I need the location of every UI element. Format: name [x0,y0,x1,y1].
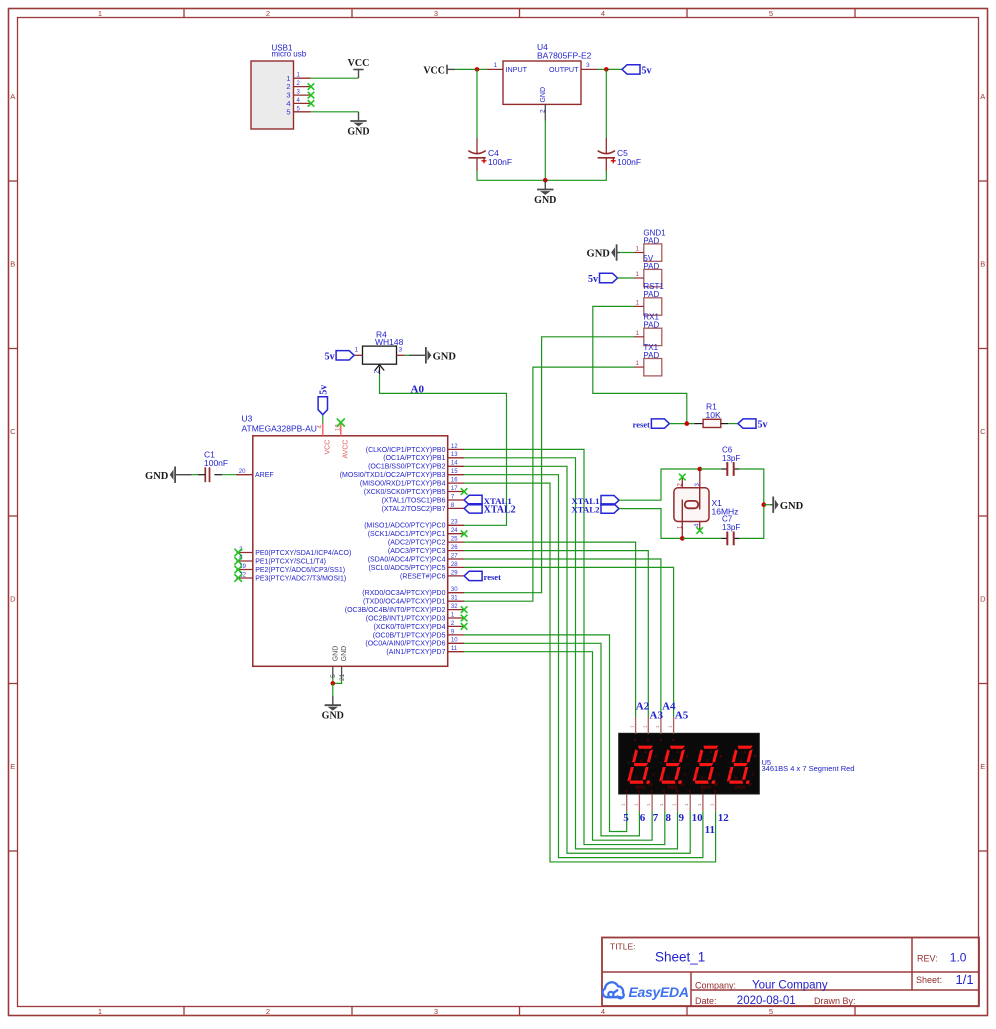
svg-text:(XTAL1/TOSC1)PB6: (XTAL1/TOSC1)PB6 [382,497,446,504]
svg-text:(CLKO/ICP1/PTCXY)PB0: (CLKO/ICP1/PTCXY)PB0 [366,447,446,454]
svg-text:C: C [10,427,16,436]
wire PC4 to display top pin A4 [464,559,661,717]
mcu U3 right pin 13 (OC1A/PTCXY)PB1 [448,457,464,459]
potentiometer R4 pin 3 [397,354,405,356]
svg-text:GND: GND [587,249,611,260]
svg-text:G: G [640,759,643,763]
svg-text:A: A [980,92,985,101]
svg-text:Sheet:: Sheet: [916,975,942,985]
wire GND to pad GND1 [620,252,635,254]
svg-text:2: 2 [266,9,270,18]
svg-text:GND: GND [780,501,804,512]
wire U4 output to 5v flag [598,68,623,70]
svg-text:(SDA0/ADC4/PTCY)PC4: (SDA0/ADC4/PTCY)PC4 [368,556,446,563]
svg-text:14: 14 [451,461,458,467]
wire C1 to GND [192,474,199,476]
net flag 5v above VCC pin [322,415,324,424]
wire pad TX1 to MCU PD1 [464,367,634,601]
junction mcu gnd [331,681,336,686]
svg-text:100nF: 100nF [617,157,641,167]
svg-text:1: 1 [355,347,359,354]
mcu U3 top pin 18 AVCC [340,424,342,436]
svg-text:REV:: REV: [917,953,938,963]
svg-text:5v: 5v [758,420,768,431]
mcu U3 right pin 31 (TXD0/OC4A/PTCXY)PD1 [448,600,464,602]
junction at gnd rail [543,178,548,183]
title block divider under title row [602,971,979,973]
wire XTAL1 to crystal loop [619,469,700,500]
mcu U3 right pin 28 (SCL0/ADC5/PTCY)PC5 [448,566,464,568]
svg-text:9: 9 [679,812,685,824]
pad TX1 box [644,359,662,376]
mcu U3 right pin 16 (MISO0/RXD1/PTCXY)PB4 [448,482,464,484]
svg-text:5: 5 [330,674,337,678]
svg-text:4: 4 [601,9,605,18]
mcu U3 right pin 25 (ADC2/PTCY)PC2 [448,541,464,543]
display U5 body [619,733,760,794]
frame row ticks right [979,180,988,182]
connector USB1 pin 2 [294,86,311,88]
svg-text:A2: A2 [636,701,650,713]
svg-text:DP: DP [714,783,719,787]
potentiometer R4 body [363,346,397,364]
regulator U4 pin 1 INPUT [487,68,503,70]
svg-text:11: 11 [705,824,715,836]
svg-text:D: D [10,595,16,604]
wire R4 pin3 to GND [405,354,409,356]
svg-text:11: 11 [451,646,458,652]
svg-text:A5: A5 [675,710,689,722]
net flag reset at mcu PC6 [464,571,482,580]
net flag XTAL2 at crystal [601,504,619,513]
net flag 5v at pad 5V [600,273,618,282]
svg-text:5: 5 [769,1007,773,1016]
svg-text:WH148: WH148 [375,337,404,347]
svg-text:5v: 5v [588,274,598,285]
svg-text:100nF: 100nF [488,157,512,167]
svg-text:DP: DP [648,783,653,787]
wire pad RST1 to reset junction [593,306,687,423]
svg-text:B: B [10,260,15,269]
pad RST1 box [644,298,662,315]
mcu U3 right pin 24 (SCK1/ADC1/PTCY)PC1 [448,533,464,535]
svg-text:1.0: 1.0 [950,950,967,964]
wire VCC to U4 input [455,68,487,70]
svg-text:10: 10 [451,638,458,644]
svg-text:XTAL2: XTAL2 [571,505,600,515]
connector USB1 pin 1 [294,77,311,79]
svg-text:Company:: Company: [695,981,736,991]
wire PD7 to display pin7 [464,652,652,841]
svg-text:(TXD0/OC4A/PTCXY)PD1: (TXD0/OC4A/PTCXY)PD1 [363,599,446,606]
svg-text:25: 25 [451,537,458,543]
mcu U3 right pin 23 (MISO1/ADC0/PTCY)PC0 [448,524,464,526]
svg-text:ATMEGA328PB-AU: ATMEGA328PB-AU [242,424,317,434]
frame row ticks left [9,180,18,182]
frame column ticks top [183,9,185,18]
regulator U4 pin 3 OUTPUT [581,68,598,70]
svg-text:C: C [980,427,986,436]
svg-text:VCC: VCC [423,65,445,76]
title block divider logo cell [690,972,692,1006]
junction at C5 tap [604,67,609,72]
svg-text:12: 12 [718,812,730,824]
junction reset net [685,421,690,426]
capacitor C7 [722,537,728,539]
pad 5V box [644,269,662,286]
svg-text:3: 3 [434,1007,438,1016]
mcu U3 left pin 3 PE0(PTCXY/SDA1/ICP4/ACO) [236,552,252,554]
wire bottom rail to C7 [682,537,722,539]
svg-text:4: 4 [601,1007,605,1016]
mcu U3 right pin 1 (OC2B/INT1/PTCXY)PD3 [448,617,464,619]
no-connect X on USB1 pin 3 [308,92,315,99]
mcu U3 right pin 11 (AIN1/PTCXY)PD7 [448,651,464,653]
svg-text:21: 21 [339,673,346,681]
net flag XTAL1 at mcu PB6 [464,495,482,504]
svg-text:15: 15 [451,469,458,475]
svg-text:(MISO0/RXD1/PTCXY)PB4: (MISO0/RXD1/PTCXY)PB4 [360,481,446,488]
svg-text:PE0(PTCXY/SDA1/ICP4/ACO): PE0(PTCXY/SDA1/ICP4/ACO) [255,550,351,557]
svg-text:(OC1A/PTCXY)PB1: (OC1A/PTCXY)PB1 [383,455,445,462]
svg-text:Drawn By:: Drawn By: [814,996,856,1006]
pad GND1 pin 1 [634,252,644,254]
svg-text:DIG4: DIG4 [735,785,745,790]
svg-text:GND: GND [332,646,339,662]
mcu U3 right pin 9 (OC0B/T1/PTCXY)PD5 [448,634,464,636]
net flag XTAL2 at mcu PB7 [464,504,482,513]
svg-text:GND: GND [540,87,547,103]
svg-text:8: 8 [666,812,672,824]
svg-text:(MISO1/ADC0/PTCY)PC0: (MISO1/ADC0/PTCY)PC0 [364,523,445,530]
svg-text:(SCK1/ADC1/PTCY)PC1: (SCK1/ADC1/PTCY)PC1 [368,531,446,538]
svg-text:26: 26 [451,545,458,551]
svg-text:AREF: AREF [255,472,274,479]
mcu U3 right pin 10 (OC0A/AIN0/PTCXY)PD6 [448,642,464,644]
title block outline [602,938,979,1007]
svg-text:D: D [980,595,986,604]
resistor R1 body [694,423,703,425]
net flag 5v at R4 pin1 [336,351,354,360]
svg-text:24: 24 [451,528,458,534]
mcu U3 bottom pin 5 GND [332,666,334,678]
svg-text:G: G [740,759,743,763]
display U5 top pins [635,717,637,734]
svg-text:micro usb: micro usb [272,49,307,58]
svg-text:32: 32 [451,604,458,610]
svg-text:PE3(PTCY/ADC7/T3/MOSI1): PE3(PTCY/ADC7/T3/MOSI1) [255,575,346,582]
svg-text:GND: GND [341,646,348,662]
no-connect X on USB1 pin 4 [308,100,315,107]
svg-text:3461BS 4 x 7 Segment Red: 3461BS 4 x 7 Segment Red [762,764,855,773]
port VCC at regulator input [447,68,455,70]
junction crystal pin1 bottom rail [680,536,685,541]
net flag 5v at regulator output [622,65,640,74]
svg-text:F: F [698,755,700,759]
svg-text:reset: reset [484,572,501,582]
pad 5V pin 1 [634,277,644,279]
svg-text:VCC: VCC [348,58,370,69]
connector USB1 pin 5 [294,111,311,113]
title block divider rev column [911,938,913,991]
mcu U3 right pin 27 (SDA0/ADC4/PTCY)PC4 [448,558,464,560]
svg-text:(ADC2/PTCY)PC2: (ADC2/PTCY)PC2 [388,540,446,547]
svg-text:(SCL0/ADC5/PTCY)PC5: (SCL0/ADC5/PTCY)PC5 [368,565,445,572]
svg-text:2: 2 [374,370,381,374]
svg-text:XTAL2: XTAL2 [484,504,516,515]
svg-text:(OC0A/AIN0/PTCXY)PD6: (OC0A/AIN0/PTCXY)PD6 [365,641,445,648]
crystal X1 pin 4 bottom noconnect [699,522,701,531]
wire mcu gnd pins join [333,679,342,684]
svg-text:DP: DP [680,783,685,787]
svg-text:5v: 5v [642,65,652,76]
wire C1 to AREF [222,474,239,476]
mcu U3 bottom pin 21 GND [341,666,343,678]
svg-text:F: F [664,755,666,759]
crystal X1 pin 1 bottom [681,522,683,539]
svg-text:G: G [706,759,709,763]
EasyEDA logo cloud [603,982,624,998]
crystal X1 body [674,488,709,522]
svg-text:Date:: Date: [695,996,717,1006]
svg-text:TITLE:: TITLE: [610,942,636,952]
wire 5v flag to pad 5V [618,277,635,279]
wire pad RX1 to MCU PD0 [464,337,634,593]
connector USB1 body [251,61,294,129]
mcu U3 pin 20 AREF [236,474,252,476]
svg-text:3: 3 [434,9,438,18]
wire C4 branch down [476,69,478,138]
mcu U3 right pin 2 (XCK0/T0/PTCXY)PD4 [448,625,464,627]
mcu U3 left pin 19 PE2(PTCY/ADC6/ICP3/SS1) [236,569,252,571]
svg-text:10: 10 [692,812,704,824]
svg-text:17: 17 [451,486,458,492]
svg-text:3: 3 [586,62,590,69]
mcu U3 right pin 14 (OC1B/SS0/PTCXY)PB2 [448,465,464,467]
svg-text:20: 20 [239,469,246,475]
svg-text:23: 23 [451,520,458,526]
svg-text:AVCC: AVCC [343,440,350,459]
wire C5 bottom to rail [545,171,606,181]
wire PB3 to display pin11 [464,475,703,858]
mcu U3 top pin 4 VCC [322,424,324,436]
wire C6 to right rail [739,469,764,505]
svg-text:A: A [10,92,15,101]
connector USB1 pin 3 [294,94,311,96]
mcu U3 right pin 32 (OC3B/OC4B/INT0/PTCXY)PD2 [448,609,464,611]
wire to gnd at crystal [764,504,771,506]
wire reset flag to junction [669,423,694,425]
svg-text:6: 6 [640,812,646,824]
pad GND1 box [644,244,662,261]
wire R1 to 5v flag [728,423,738,425]
crystal X1 pin 3 top [699,469,701,488]
svg-text:13pF: 13pF [722,523,740,532]
svg-text:VCC: VCC [324,440,331,455]
wire top rail to C6 [700,468,722,470]
svg-text:Sheet_1: Sheet_1 [655,950,705,965]
pad RX1 box [644,328,662,345]
regulator U4 body [503,61,581,104]
mcu U3 right pin 26 (ADC3/PTCY)PC3 [448,550,464,552]
pad TX1 pin 1 [634,366,644,368]
potentiometer R4 pin 1 [354,354,362,356]
svg-text:GND: GND [347,126,369,137]
wire C5 branch down [605,69,607,138]
mcu U3 left pin 6 PE1(PTCXY/SCL1/T4) [236,560,252,562]
ground symbol GND at crystal [770,504,772,506]
svg-text:100nF: 100nF [204,458,228,468]
svg-text:1: 1 [98,1007,102,1016]
svg-text:F: F [732,755,734,759]
svg-text:DP: DP [748,783,753,787]
capacitor C4 [476,138,478,155]
svg-text:OUTPUT: OUTPUT [549,65,579,74]
svg-text:(XCK0/T0/PTCXY)PD4: (XCK0/T0/PTCXY)PD4 [374,624,446,631]
wire PC3 to display top pin A3 [464,551,648,717]
title block divider company/date [691,989,979,991]
potentiometer R4 wiper pin 2 with arrow [379,367,381,375]
svg-text:(RESET#)PC6: (RESET#)PC6 [400,573,446,580]
ground symbol GND at pad GND1 [617,252,619,254]
junction at C4 tap [475,67,480,72]
svg-text:(MOSI0/TXD1/OC2A/PTCXY)PB3: (MOSI0/TXD1/OC2A/PTCXY)PB3 [340,472,446,479]
mcu U3 right pin 30 (RXD0/OC3A/PTCXY)PD0 [448,592,464,594]
svg-text:(OC1B/SS0/PTCXY)PB2: (OC1B/SS0/PTCXY)PB2 [368,464,446,471]
display U5 digits [627,746,659,784]
wire U4 gnd pin to rail [544,121,546,181]
svg-text:GND: GND [145,471,169,482]
svg-text:27: 27 [451,553,458,559]
net flag 5v at R1 [738,419,756,428]
wire PB1 to display pin9 [464,458,678,849]
svg-text:BA7805FP-E2: BA7805FP-E2 [537,51,592,61]
svg-text:5: 5 [623,812,629,824]
mcu U3 right pin 12 (CLKO/ICP1/PTCXY)PB0 [448,448,464,450]
svg-text:31: 31 [451,596,458,602]
mcu U3 left pin 22 PE3(PTCY/ADC7/T3/MOSI1) [236,577,252,579]
svg-text:PE2(PTCY/ADC6/ICP3/SS1): PE2(PTCY/ADC6/ICP3/SS1) [255,567,345,574]
wire XTAL2 to crystal loop [619,509,682,539]
capacitor C5 [605,138,607,155]
display U5 bottom pins [626,794,628,811]
svg-text:28: 28 [451,562,458,568]
svg-text:(AIN1/PTCXY)PD7: (AIN1/PTCXY)PD7 [386,649,445,656]
ground symbol GND at R4 [409,354,423,356]
svg-text:A0: A0 [411,383,425,395]
svg-text:5v: 5v [325,351,335,362]
svg-text:5: 5 [286,107,290,116]
net flag reset at R1 [651,419,669,428]
svg-text:3: 3 [399,347,403,354]
svg-text:5v: 5v [318,385,329,395]
wire PB2 to display pin10 [464,466,690,853]
svg-text:U3: U3 [242,414,253,424]
wire USB1 pin5 to GND [311,111,359,113]
svg-text:10K: 10K [706,410,721,420]
capacitor C6 [722,468,728,470]
wire C4 bottom to rail [477,171,545,181]
svg-text:12: 12 [451,444,458,450]
wire A0 from R4 wiper to MCU PC0 [380,374,507,525]
wire to gnd symbol [332,683,334,696]
ground symbol GND under regulator [544,180,546,189]
svg-text:(RXD0/OC3A/PTCXY)PD0: (RXD0/OC3A/PTCXY)PD0 [362,590,445,597]
wire C7 to right rail [739,505,764,539]
svg-text:Your Company: Your Company [752,980,828,992]
no-connect X on AVCC [337,419,345,427]
wire PC2 to display top pin A2 [464,542,636,717]
svg-text:(OC2B/INT1/PTCXY)PD3: (OC2B/INT1/PTCXY)PD3 [366,615,446,622]
svg-text:16: 16 [451,478,458,484]
svg-text:1: 1 [494,62,498,69]
svg-text:30: 30 [451,587,458,593]
mcu U3 right pin 29 (RESET#)PC6 [448,575,464,577]
svg-text:(ADC3/PTCY)PC3: (ADC3/PTCY)PC3 [388,548,446,555]
svg-text:B: B [980,260,985,269]
svg-text:5: 5 [769,9,773,18]
pad RST1 pin 1 [634,305,644,307]
svg-text:GND: GND [322,711,344,722]
svg-text:E: E [980,762,985,771]
mcu U3 right pin 7 (XTAL1/TOSC1)PB6 [448,499,464,501]
svg-text:reset: reset [633,420,650,430]
svg-text:2: 2 [540,109,547,113]
regulator U4 pin 2 GND [544,104,546,120]
svg-text:GND: GND [534,195,556,206]
capacitor C1 [214,474,222,476]
svg-text:GND: GND [433,352,457,363]
svg-text:E: E [10,762,15,771]
wire PC5 to display top pin A5 [464,567,674,717]
crystal X1 internal symbol [682,488,699,522]
mcu U3 right pin 17 (XCK0/SCK0/PTCXY)PB5 [448,491,464,493]
svg-text:2020-08-01: 2020-08-01 [737,995,796,1007]
svg-text:INPUT: INPUT [506,65,528,74]
svg-text:7: 7 [653,812,659,824]
crystal X1 pin 2 top noconnect [681,478,683,488]
pad RX1 pin 1 [634,336,644,338]
wire PD6 to display pin6 [464,643,639,836]
wire PD5 to display pin5 [464,635,627,832]
svg-text:(OC0B/T1/PTCXY)PD5: (OC0B/T1/PTCXY)PD5 [373,632,446,639]
connector USB1 pin 4 [294,102,311,104]
svg-text:F: F [632,755,634,759]
mcu U3 body [253,436,448,667]
svg-text:1/1: 1/1 [956,972,974,987]
junction crystal pin3 top rail [698,467,703,472]
svg-text:PE1(PTCXY/SCL1/T4): PE1(PTCXY/SCL1/T4) [255,558,326,565]
no-connect X on USB1 pin 2 [308,83,315,90]
svg-text:29: 29 [451,570,458,576]
svg-text:1: 1 [98,9,102,18]
wire USB1 pin1 to VCC [311,77,359,79]
svg-text:13pF: 13pF [722,454,740,463]
wire PB0 to display pin8 [464,449,665,844]
svg-text:EasyEDA: EasyEDA [629,984,689,1000]
wire PB4 to display pin12 [464,483,716,862]
mcu U3 right pin 15 (MOSI0/TXD1/OC2A/PTCXY)PB3 [448,474,464,476]
frame column ticks bottom [183,1007,185,1016]
ground symbol GND at C1 [178,474,192,476]
power flag VCC at USB1 [358,70,360,79]
svg-text:(XCK0/SCK0/PTCXY)PB5: (XCK0/SCK0/PTCXY)PB5 [364,489,446,496]
svg-text:G: G [672,759,675,763]
svg-text:2: 2 [266,1007,270,1016]
svg-text:(XTAL2/TOSC2)PB7: (XTAL2/TOSC2)PB7 [382,506,446,513]
net flag XTAL1 at crystal [601,496,619,505]
ground symbol GND at USB1 [358,112,360,121]
